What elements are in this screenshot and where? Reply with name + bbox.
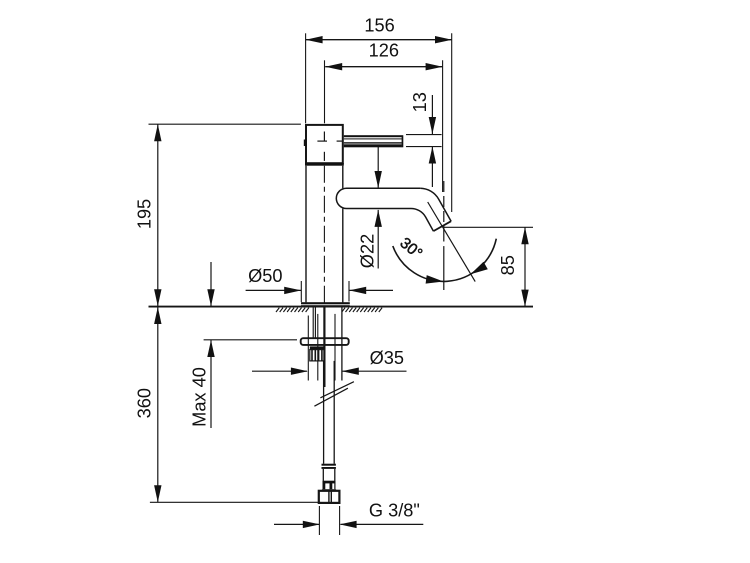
svg-text:360: 360 [135, 388, 155, 418]
svg-text:126: 126 [369, 41, 399, 61]
svg-text:195: 195 [135, 199, 155, 229]
svg-text:13: 13 [410, 92, 430, 112]
svg-text:Ø22: Ø22 [358, 234, 378, 268]
svg-text:G 3/8": G 3/8" [369, 501, 420, 521]
svg-text:85: 85 [498, 255, 518, 275]
svg-text:156: 156 [364, 16, 394, 36]
svg-text:Ø35: Ø35 [370, 348, 404, 368]
svg-text:Ø50: Ø50 [248, 266, 282, 286]
svg-text:Max 40: Max 40 [190, 367, 210, 427]
